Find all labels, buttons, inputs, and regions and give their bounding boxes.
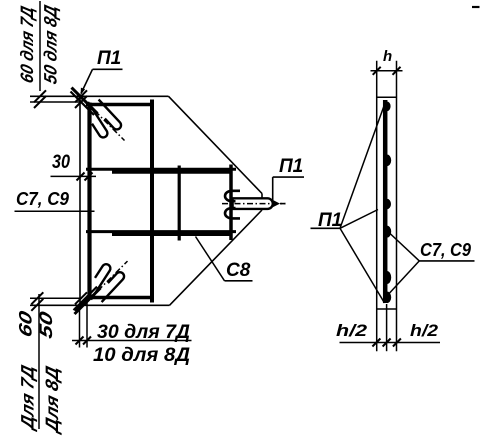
plate P1 top edge [86,103,154,107]
dimension h/2 bottom [340,342,441,344]
svg-text:П1: П1 [279,156,303,177]
side view bottom edge [377,308,397,310]
wire top edge of gusset plate (with left extension) [30,95,169,97]
plate P1 left edge (front view) [87,103,91,299]
anchor at top-left corner [71,88,125,141]
svg-text:С7, С9: С7, С9 [16,188,70,209]
hook A [99,100,121,130]
wire extension line lower second [30,297,82,299]
vertical bar at x179 [178,166,181,241]
side view plate thick bar [383,100,388,303]
svg-text:С7, С9: С7, С9 [420,239,472,260]
anchor C8 vertical bar [229,165,233,241]
leader C8 [196,237,225,281]
wire left edge of gusset [79,96,81,305]
plate P1 right edge [150,100,154,303]
dimension slash ticks top-left [75,90,87,102]
centerline dash-dot [95,111,125,141]
svg-text:50 для 8Д: 50 для 8Д [40,3,61,86]
hook B [88,102,107,137]
svg-text:П1: П1 [97,48,121,69]
dimension line vertical top-left [39,1,41,91]
anchor bumps on side view [387,102,391,304]
wire bottom edge of gusset (with left extension) [30,304,170,306]
svg-text:Для 7Д: Для 7Д [17,363,38,433]
side view top edge [377,96,397,98]
anchor bar along band bottom [112,233,232,237]
side view left outline [376,61,378,351]
dimension slash ticks bottom-left [75,292,87,304]
leader C7 C9 left [15,210,95,212]
top right dash [472,6,480,8]
dimension 30/10 bottom [72,340,192,342]
label P1 top underline and leader [93,68,123,70]
svg-text:П1: П1 [318,210,342,231]
anchor at bottom-left corner (mirror) [74,261,128,314]
dimension h top [371,70,403,72]
svg-text:30: 30 [52,152,70,173]
channel band top edge [86,168,236,171]
hook upper at tip [225,191,240,201]
side view center extension [386,304,388,351]
svg-text:30 для 7Д: 30 для 7Д [97,322,190,343]
anchor loop P1 bullet tab at tip [233,198,273,209]
svg-text:60: 60 [15,309,36,339]
hook lower at tip [225,208,240,218]
dimension line vertical bottom-left [38,294,40,429]
thick leg across corner [72,88,98,114]
svg-text:10 для 8Д: 10 для 8Д [93,345,190,366]
svg-text:Для 8Д: Для 8Д [41,364,62,436]
svg-text:С8: С8 [226,260,251,281]
svg-text:50: 50 [35,309,56,340]
svg-text:60 для 7Д: 60 для 7Д [16,4,37,85]
plate P1 bottom edge [86,296,154,300]
svg-text:h/2: h/2 [336,321,368,340]
wire upper diagonal edge of gusset [169,96,263,193]
label P1 side underline and fan [311,227,341,229]
svg-text:h/2: h/2 [410,321,439,340]
centerline of tip anchor [222,203,286,205]
channel band bottom edge [86,230,236,233]
anchor bar along band top [112,170,232,174]
side view right outline [396,61,398,351]
wire blunt tip edge [261,194,263,211]
label P1 right underline leader arrow [273,176,304,178]
wire lower diagonal edge of gusset [170,210,263,305]
wire extension line upper second [30,101,82,103]
svg-text:h: h [383,48,392,65]
dimension 30 line [51,175,97,177]
label C7 C9 right underline and fan [419,260,474,262]
